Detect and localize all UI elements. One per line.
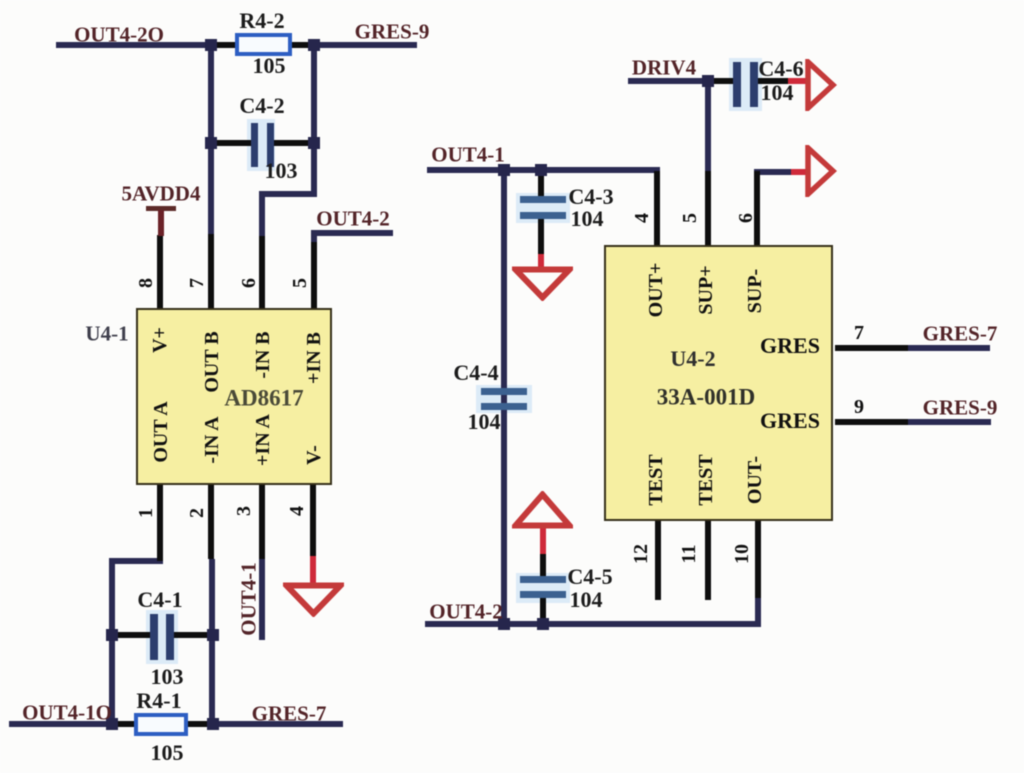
capacitor C4-3 glow xyxy=(516,193,570,223)
capacitor C4-2 leads xyxy=(214,140,254,146)
net label GRES-9 top xyxy=(355,22,430,43)
pin 6 stub U4-2 xyxy=(754,171,760,245)
value 104 C4-5 xyxy=(570,589,603,611)
resistor R4-1 leads xyxy=(115,721,137,727)
resistor R4-2 body xyxy=(235,33,292,56)
pin number 3 xyxy=(234,506,254,516)
wire vertical x314 R4-2 right node to C4-2 xyxy=(311,42,317,146)
wire net OUT4-2O to GRES-9 horizontal xyxy=(56,42,417,48)
capacitor C4-6 leads xyxy=(711,78,735,84)
pin 5 stub U4-1 xyxy=(311,242,317,308)
arrow symbol pin6 U4-2 xyxy=(805,145,837,197)
wire OUT4-2 label to pin5 xyxy=(311,230,317,244)
wire net OUT4-2 underline xyxy=(311,230,393,236)
pin number 12 U4-2 xyxy=(631,544,651,564)
net label OUT4-1 right xyxy=(431,145,505,166)
wire pin1 L horizontal y561 xyxy=(109,558,163,564)
wire net OUT4-2 right circuit horizontal xyxy=(425,621,761,627)
pin number 4 xyxy=(287,506,307,516)
wire net OUT4-1O to GRES-7 horizontal xyxy=(9,721,343,727)
label C4-2 xyxy=(239,95,284,117)
pin name V- xyxy=(304,445,324,465)
wire jog horizontal y194 xyxy=(259,191,317,197)
wire vertical x314 C4-2 to jog xyxy=(311,140,317,197)
pin 10 stub U4-2 xyxy=(755,521,761,598)
value 104 C4-4 xyxy=(468,411,501,433)
pin 9 stub U4-2 xyxy=(835,419,908,425)
pin number 7 U4-2 xyxy=(854,323,864,343)
pin number 5 xyxy=(290,278,310,288)
pin name TEST 12 xyxy=(646,454,666,505)
capacitor C4-1 leads xyxy=(113,632,153,638)
pin 5 stub U4-2 xyxy=(705,171,711,245)
label C4-3 xyxy=(568,186,613,208)
junction C4-1 right xyxy=(207,629,219,641)
power symbol above C4-5 xyxy=(512,491,573,529)
net label OUT4-1 rotated pin3 xyxy=(239,562,260,636)
net label OUT4-2 right xyxy=(429,602,503,623)
power 5AVDD4 stem xyxy=(158,210,164,236)
red lead pin6 arrow xyxy=(791,169,808,175)
resistor R4-1 body xyxy=(134,713,188,736)
junction R4-1 right xyxy=(207,718,219,730)
net label 5AVDD4 xyxy=(122,184,201,205)
pin name V+ xyxy=(150,327,170,353)
value 104 C4-3 xyxy=(571,208,604,230)
pin 3 stub U4-1 xyxy=(259,485,265,559)
pin number 1 xyxy=(136,508,156,518)
pin 1 stub U4-1 xyxy=(157,485,163,561)
pin name GRES 7 xyxy=(760,335,820,357)
capacitor C4-1 plates xyxy=(150,614,158,660)
pin number 11 U4-2 xyxy=(679,545,699,564)
label C4-4 xyxy=(453,362,498,384)
ground stem pin4 U4-1 xyxy=(310,556,316,586)
net label OUT4-2 left xyxy=(316,209,390,230)
pin name +IN B xyxy=(304,332,324,384)
wire jog vertical x262 to pin6 xyxy=(259,191,265,237)
junction OUT4-1 x504 xyxy=(498,164,510,176)
junction OUT4-1 x541 xyxy=(535,164,547,176)
power stem above C4-5 xyxy=(540,526,546,554)
pin name OUT+ xyxy=(646,263,666,318)
pin name -IN A xyxy=(202,416,222,463)
value 103 C4-2 xyxy=(265,160,298,182)
pin name SUP+ xyxy=(696,265,716,314)
value 103 C4-1 xyxy=(151,666,184,688)
wire net DRIV4 horizontal xyxy=(628,78,711,84)
part AD8617 xyxy=(224,387,303,410)
pin name GRES 9 xyxy=(760,410,820,432)
pin number 9 U4-2 xyxy=(854,397,864,417)
net label GRES-7 right xyxy=(923,324,998,345)
pin 6 stub U4-1 xyxy=(259,236,265,308)
pin number 8 xyxy=(136,278,156,288)
label R4-2 xyxy=(239,10,284,32)
pin number 6 xyxy=(239,278,259,288)
ground stem C4-3 xyxy=(538,254,544,270)
wire vertical x112 pin1 to C4-1 to R4-1 xyxy=(109,558,115,724)
pin 2 stub U4-1 xyxy=(208,485,214,559)
op-amp U4-1 body xyxy=(136,308,332,485)
capacitor C4-4 plates xyxy=(481,388,527,395)
wire GRES-9 net horizontal xyxy=(908,419,991,425)
pin 8 stub U4-1 xyxy=(157,235,163,308)
pin 7 stub U4-2 xyxy=(835,345,908,351)
driver U4-2 body xyxy=(604,245,833,521)
pin 12 stub U4-2 xyxy=(655,521,661,600)
capacitor C4-6 plates xyxy=(733,62,741,107)
label R4-1 xyxy=(136,690,181,712)
capacitor C4-2 plates xyxy=(251,123,258,167)
net label GRES-9 right xyxy=(923,398,998,419)
pin number 6 U4-2 xyxy=(736,213,756,223)
ground symbol C4-3 xyxy=(512,266,573,301)
wire vertical x211 from R4-2 node down to pin7 xyxy=(208,42,214,236)
wire net OUT4-1 right circuit horizontal xyxy=(427,167,660,173)
junction C4-1 left xyxy=(106,629,118,641)
value 104 C4-6 xyxy=(761,82,794,104)
wire vertical x212 pin2 down through C4-1 to R4-1 xyxy=(209,559,215,724)
wire pin3 net label line xyxy=(259,559,265,640)
net label OUT4-2O xyxy=(74,25,164,46)
capacitor C4-3 plates xyxy=(520,196,566,203)
net label OUT4-1O xyxy=(22,703,112,724)
capacitor C4-6 glow xyxy=(729,58,762,111)
pin 4 stub U4-2 xyxy=(654,171,660,245)
pin number 10 U4-2 xyxy=(732,544,752,564)
wire vertical x758 up to pin10 xyxy=(755,598,761,627)
pin name SUP- xyxy=(745,269,765,313)
pin 11 stub U4-2 xyxy=(705,521,711,600)
resistor R4-2 leads xyxy=(214,42,238,48)
pin name +IN A xyxy=(253,414,273,466)
wire GRES-7 net horizontal xyxy=(908,345,990,351)
junction DRIV4 xyxy=(702,75,714,87)
wire main vertical x504 xyxy=(501,167,507,627)
pin name OUT A xyxy=(151,401,171,462)
value 105 R4-1 xyxy=(151,742,184,764)
pin number 5 U4-2 xyxy=(680,213,700,223)
pin name OUT B xyxy=(202,331,222,392)
pin name OUT- xyxy=(745,456,765,504)
junction C4-2 left xyxy=(205,137,217,149)
red lead C4-6 arrow xyxy=(788,78,808,84)
label C4-6 xyxy=(758,58,803,80)
pin name TEST 11 xyxy=(696,454,716,505)
refdes U4-2 xyxy=(670,348,715,370)
pin number 2 xyxy=(187,508,207,518)
capacitor C4-2 glow xyxy=(247,119,275,171)
capacitor C4-3 leads xyxy=(538,172,544,199)
label C4-1 xyxy=(137,589,182,611)
refdes U4-1 xyxy=(85,324,128,345)
power 5AVDD4 bar xyxy=(146,206,176,211)
pin 7 stub U4-1 xyxy=(208,234,214,308)
capacitor C4-4 glow xyxy=(476,385,532,413)
junction C4-2 right xyxy=(308,137,320,149)
capacitor C4-5 plates xyxy=(520,576,566,583)
capacitor C4-1 glow xyxy=(146,610,178,664)
capacitor C4-5 glow xyxy=(516,573,570,603)
net label DRIV4 xyxy=(632,58,696,79)
junction R4-2 left xyxy=(205,39,217,51)
value 105 R4-2 xyxy=(253,55,286,77)
junction R4-1 left xyxy=(106,718,118,730)
pin number 4 U4-2 xyxy=(632,213,652,223)
net label GRES-7 bottom left xyxy=(252,704,327,725)
pin 4 stub U4-1 xyxy=(310,485,316,556)
part 33A-001D xyxy=(657,386,755,409)
wire pin6 horizontal to arrow xyxy=(754,169,792,175)
pin number 7 xyxy=(187,278,207,288)
capacitor C4-5 leads xyxy=(540,553,546,578)
junction R4-2 right xyxy=(308,39,320,51)
ground symbol pin4 U4-1 xyxy=(283,582,344,617)
arrow symbol C4-6 xyxy=(805,59,837,111)
junction OUT4-2 x543 xyxy=(537,618,549,630)
wire vertical x708 DRIV4 to pin5 xyxy=(705,78,711,172)
pin name -IN B xyxy=(253,331,273,378)
junction OUT4-2 x504 xyxy=(498,618,510,630)
label C4-5 xyxy=(567,566,612,588)
